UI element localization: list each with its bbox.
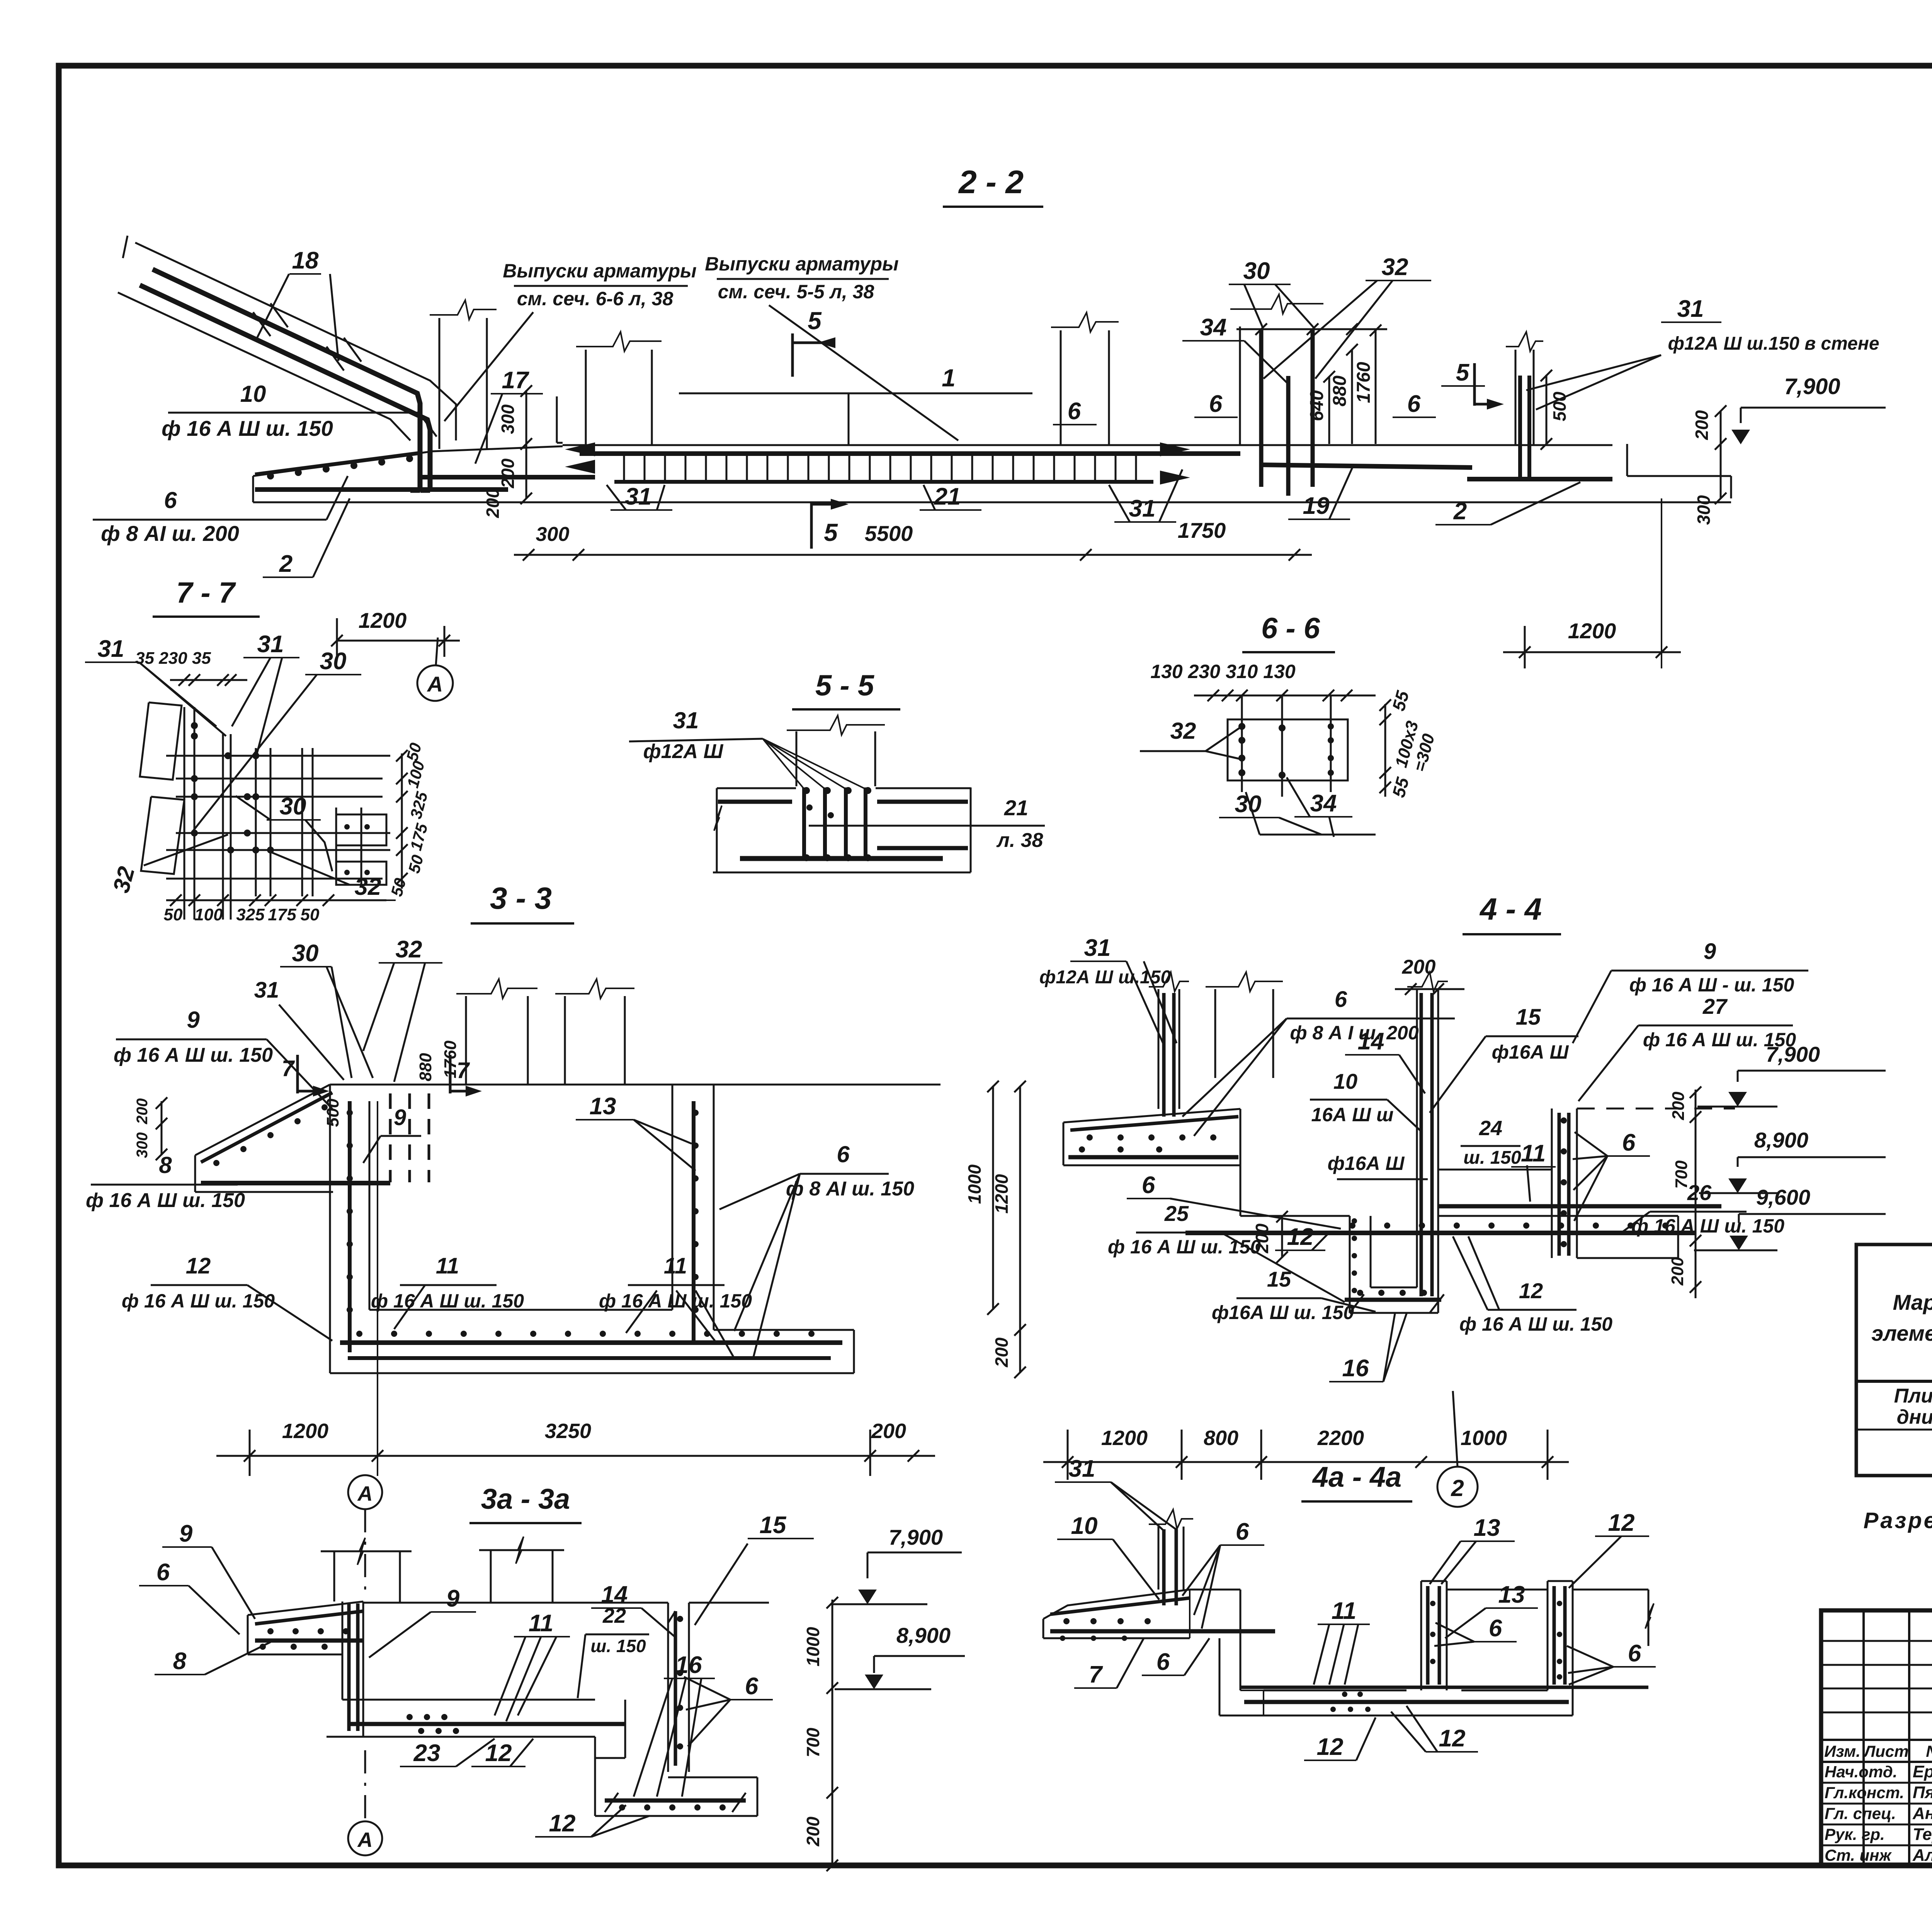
svg-text:5: 5	[808, 307, 822, 335]
svg-text:12: 12	[549, 1810, 576, 1837]
svg-text:6: 6	[1489, 1615, 1502, 1642]
dim 500 right	[1546, 375, 1548, 444]
6-6 dims right	[1384, 704, 1386, 797]
svg-text:8: 8	[173, 1648, 187, 1675]
svg-text:32: 32	[1382, 254, 1408, 281]
svg-text:7: 7	[282, 1056, 295, 1081]
svg-text:31: 31	[1084, 935, 1111, 961]
svg-text:2: 2	[1453, 498, 1467, 525]
wall stub 1	[439, 318, 440, 449]
svg-text:10: 10	[1071, 1513, 1098, 1539]
svg-text:4 - 4: 4 - 4	[1479, 892, 1542, 926]
svg-text:11: 11	[436, 1253, 459, 1279]
svg-text:Нач.отд.: Нач.отд.	[1825, 1763, 1897, 1781]
dowel bars 30 32	[1259, 329, 1264, 487]
7-7 left parallelograms 32	[140, 702, 182, 780]
svg-text:элемента: элемента	[1871, 1321, 1932, 1345]
svg-text:2: 2	[1451, 1475, 1464, 1501]
svg-text:30: 30	[292, 940, 319, 967]
svg-text:21: 21	[934, 483, 961, 510]
svg-text:1750: 1750	[1178, 518, 1226, 542]
svg-text:12: 12	[1317, 1734, 1344, 1760]
svg-text:7,900: 7,900	[1784, 374, 1840, 399]
svg-text:9: 9	[187, 1007, 200, 1033]
svg-text:31: 31	[1069, 1455, 1095, 1482]
svg-text:300: 300	[1694, 495, 1714, 525]
svg-text:200: 200	[803, 1816, 823, 1846]
7-7 dims right	[401, 753, 403, 889]
svg-text:6: 6	[837, 1141, 850, 1167]
table vyborka grid	[1856, 1245, 1932, 1476]
svg-text:6: 6	[1142, 1172, 1155, 1199]
svg-text:9: 9	[394, 1105, 406, 1130]
5-5 vertical bars	[802, 787, 806, 861]
4a-4a footing bars	[1050, 1598, 1190, 1614]
svg-text:200: 200	[871, 1420, 906, 1443]
svg-text:ф 8 АI ш. 150: ф 8 АI ш. 150	[786, 1178, 914, 1200]
svg-text:А: А	[357, 1828, 373, 1851]
svg-text:ф16А Ш: ф16А Ш	[1492, 1041, 1569, 1063]
7-7 grid verticals	[184, 707, 185, 920]
svg-text:ф 16 А Ш ш. 150: ф 16 А Ш ш. 150	[371, 1290, 524, 1312]
svg-text:Ст. инж: Ст. инж	[1825, 1846, 1892, 1864]
3a-3a break marks top	[321, 1551, 412, 1552]
3-3 cut 7 marks	[296, 1055, 299, 1093]
svg-text:13: 13	[1474, 1515, 1500, 1541]
svg-text:700: 700	[803, 1727, 823, 1757]
svg-text:А: А	[427, 672, 443, 696]
ladder bar 1	[614, 452, 1153, 456]
svg-text:6: 6	[1068, 398, 1081, 425]
svg-text:6: 6	[1622, 1129, 1636, 1156]
chute splice ticks	[253, 312, 270, 336]
3-3 outline	[330, 1084, 940, 1086]
svg-text:18: 18	[292, 247, 319, 274]
svg-text:16: 16	[1342, 1355, 1369, 1382]
svg-text:32: 32	[1170, 718, 1196, 744]
svg-text:6: 6	[164, 487, 177, 513]
svg-text:Изм.: Изм.	[1824, 1742, 1861, 1760]
svg-text:175: 175	[268, 905, 296, 924]
svg-text:27: 27	[1702, 994, 1728, 1018]
dim 640 880 1760	[1328, 377, 1330, 444]
svg-text:200: 200	[1669, 1092, 1688, 1120]
svg-text:11: 11	[664, 1253, 687, 1279]
svg-text:17: 17	[502, 367, 529, 394]
svg-text:7 - 7: 7 - 7	[176, 576, 236, 609]
4-4 mid bar	[1438, 1204, 1721, 1209]
svg-text:31: 31	[254, 978, 279, 1003]
3a-3a outline	[248, 1602, 363, 1615]
svg-text:Терновая: Терновая	[1913, 1825, 1932, 1844]
svg-text:200: 200	[1252, 1223, 1272, 1253]
svg-text:Рук. гр.: Рук. гр.	[1825, 1825, 1885, 1843]
svg-text:19: 19	[1303, 493, 1330, 519]
cut mark 5 top	[791, 333, 794, 377]
4-4 wall bars mid	[1420, 993, 1423, 1296]
svg-text:ф 16 А Ш - ш. 150: ф 16 А Ш - ш. 150	[1629, 974, 1794, 996]
svg-text:31: 31	[98, 636, 124, 662]
svg-text:Ерзин: Ерзин	[1913, 1762, 1932, 1781]
wall 4 dowels 31	[1518, 376, 1522, 481]
svg-text:9: 9	[446, 1585, 460, 1612]
lap bar 19	[1261, 465, 1472, 468]
svg-text:4а - 4а: 4а - 4а	[1312, 1461, 1401, 1493]
4-4 footing bars	[1070, 1117, 1238, 1130]
wall stub around dowels	[1239, 326, 1241, 445]
4-4 wall dots left	[1352, 1218, 1357, 1224]
svg-text:1200: 1200	[359, 608, 407, 632]
svg-text:1000: 1000	[1461, 1426, 1507, 1450]
7-7 axis circle A	[417, 665, 453, 701]
svg-text:Александров: Александров	[1912, 1846, 1932, 1865]
svg-text:50: 50	[301, 905, 320, 924]
wall stub 2	[585, 350, 587, 445]
svg-text:2: 2	[279, 551, 293, 577]
4-4 long bottom bar	[1185, 1231, 1696, 1235]
svg-text:ф 16 А Ш ш. 150: ф 16 А Ш ш. 150	[162, 416, 333, 440]
3-3 footing bars	[201, 1093, 332, 1162]
4-4 dims right	[1695, 1090, 1697, 1298]
svg-text:700: 700	[1672, 1160, 1691, 1189]
svg-text:200: 200	[498, 458, 518, 488]
svg-text:25: 25	[1164, 1201, 1189, 1226]
svg-text:31: 31	[625, 483, 652, 510]
4a-4a wall bars right1	[1426, 1586, 1430, 1685]
svg-text:5: 5	[1456, 359, 1470, 386]
svg-text:ф12А Ш ш.150 в стене: ф12А Ш ш.150 в стене	[1668, 333, 1879, 354]
svg-text:11: 11	[529, 1610, 553, 1637]
svg-text:325: 325	[236, 905, 265, 924]
slab outline 2-2	[563, 444, 1612, 446]
svg-text:12: 12	[1519, 1279, 1543, 1303]
svg-text:Пямякин: Пямякин	[1913, 1783, 1932, 1802]
4-4 dim stub	[1214, 989, 1216, 1078]
svg-text:Плита: Плита	[1894, 1385, 1932, 1407]
3-3 top wall stubs	[465, 996, 467, 1085]
svg-text:N докум.: N докум.	[1926, 1742, 1932, 1760]
svg-text:11: 11	[1332, 1598, 1356, 1624]
3a-3a dims right	[832, 1600, 833, 1866]
6-6 dots	[1238, 723, 1245, 730]
svg-text:ф 16 А Ш ш. 150: ф 16 А Ш ш. 150	[114, 1044, 273, 1066]
svg-text:6: 6	[1407, 391, 1421, 417]
axis circle 2	[1437, 1467, 1478, 1507]
svg-text:ф 8 АI ш. 200: ф 8 АI ш. 200	[101, 521, 239, 546]
svg-text:Антонов: Антонов	[1912, 1804, 1932, 1823]
footing left 2-2	[252, 476, 254, 502]
svg-text:ш. 150: ш. 150	[590, 1636, 646, 1656]
svg-text:10: 10	[240, 381, 266, 407]
svg-text:200: 200	[1692, 410, 1712, 440]
svg-text:ф16А Ш ш. 150: ф16А Ш ш. 150	[1212, 1302, 1354, 1323]
svg-text:см. сеч. 5-5 л, 38: см. сеч. 5-5 л, 38	[718, 281, 874, 303]
svg-text:3 - 3: 3 - 3	[490, 881, 552, 915]
svg-text:35 230 35: 35 230 35	[135, 649, 211, 668]
dim 300 200 left	[526, 390, 527, 444]
svg-text:30: 30	[1243, 258, 1270, 284]
svg-text:7,900: 7,900	[889, 1525, 943, 1549]
svg-text:ф16А Ш: ф16А Ш	[1328, 1153, 1405, 1174]
svg-text:640: 640	[1307, 390, 1327, 421]
3-3 wall dots	[347, 1110, 353, 1116]
4-4 dims bottom	[1043, 1461, 1569, 1463]
5-5 wall break top	[796, 731, 798, 786]
svg-text:12: 12	[485, 1740, 512, 1766]
svg-text:ф12А Ш: ф12А Ш	[643, 740, 724, 763]
4-4 left wall stub	[1158, 989, 1160, 1109]
svg-text:130 230 310 130: 130 230 310 130	[1150, 661, 1296, 682]
svg-text:10: 10	[1333, 1069, 1357, 1093]
3a-3a wall bars	[347, 1603, 351, 1731]
svg-text:30: 30	[320, 648, 347, 675]
svg-text:1760: 1760	[1354, 362, 1374, 403]
svg-text:14: 14	[601, 1581, 628, 1608]
svg-text:16: 16	[675, 1652, 702, 1678]
svg-text:300: 300	[498, 404, 518, 434]
svg-text:15: 15	[760, 1512, 787, 1539]
svg-text:200: 200	[483, 488, 503, 518]
svg-text:500: 500	[1549, 391, 1570, 421]
svg-text:ф 16 А Ш ш. 150: ф 16 А Ш ш. 150	[599, 1290, 752, 1312]
svg-text:13: 13	[1498, 1581, 1525, 1608]
svg-text:24: 24	[1479, 1117, 1502, 1140]
5-5 slab bars	[718, 800, 792, 804]
svg-text:31: 31	[1129, 495, 1156, 522]
svg-text:31: 31	[673, 707, 699, 733]
svg-text:6: 6	[1209, 391, 1223, 417]
7-7 small col right	[335, 808, 337, 885]
3a-3a right wall bars	[674, 1611, 677, 1766]
3a-3a footing bar	[255, 1611, 363, 1624]
svg-text:6: 6	[1236, 1518, 1249, 1545]
svg-text:2 - 2: 2 - 2	[958, 164, 1024, 200]
svg-text:6 - 6: 6 - 6	[1261, 612, 1320, 645]
svg-text:100: 100	[194, 905, 223, 924]
svg-text:8,900: 8,900	[896, 1623, 951, 1647]
svg-text:7: 7	[1089, 1661, 1103, 1688]
svg-text:11: 11	[1521, 1140, 1546, 1167]
svg-text:3а - 3а: 3а - 3а	[481, 1483, 570, 1515]
7-7 dots	[191, 722, 198, 729]
svg-text:21: 21	[1004, 796, 1028, 820]
svg-text:200: 200	[134, 1098, 151, 1125]
svg-text:32: 32	[396, 936, 422, 963]
4a-4a slab bars	[1244, 1700, 1569, 1704]
chute rebar thick bars	[153, 269, 420, 491]
svg-text:34: 34	[1200, 314, 1227, 341]
svg-text:500: 500	[323, 1098, 342, 1127]
svg-text:5500: 5500	[865, 521, 913, 546]
svg-text:12: 12	[186, 1253, 211, 1279]
4-4 trench bars	[1345, 1298, 1441, 1302]
svg-text:ф12А Ш ш.150: ф12А Ш ш.150	[1039, 967, 1171, 988]
svg-text:2200: 2200	[1317, 1426, 1364, 1450]
svg-text:6: 6	[745, 1673, 759, 1700]
wall stub 3	[1060, 330, 1062, 445]
svg-text:А: А	[357, 1482, 373, 1505]
svg-text:6: 6	[1156, 1649, 1170, 1675]
svg-text:13: 13	[590, 1093, 616, 1120]
dim 200 300 right	[1720, 411, 1722, 498]
svg-text:15: 15	[1516, 1005, 1541, 1030]
svg-text:31: 31	[1677, 296, 1704, 322]
svg-text:12: 12	[1608, 1510, 1635, 1536]
svg-text:15: 15	[1267, 1267, 1291, 1291]
svg-text:5 - 5: 5 - 5	[815, 669, 875, 702]
4a-4a outline	[1043, 1590, 1190, 1619]
chute outline 2-2	[135, 243, 456, 440]
svg-text:7,900: 7,900	[1766, 1042, 1820, 1066]
3-3 dims right	[992, 1086, 994, 1310]
axis circle A bottom	[348, 1821, 382, 1855]
svg-text:8: 8	[159, 1152, 172, 1178]
svg-text:30: 30	[280, 793, 306, 820]
bottom right bar 2	[1467, 477, 1612, 481]
3a-3a trench bars	[605, 1799, 746, 1803]
svg-text:1000: 1000	[803, 1627, 823, 1666]
title block	[1821, 1610, 1932, 1866]
svg-text:300: 300	[536, 523, 570, 546]
svg-text:200: 200	[1402, 956, 1436, 978]
svg-text:30: 30	[1235, 791, 1262, 818]
svg-text:ф 16 А Ш ш. 150: ф 16 А Ш ш. 150	[1108, 1236, 1261, 1258]
4a-4a right break	[1648, 1590, 1650, 1646]
5-5 break marks	[714, 806, 722, 831]
7-7 dims bottom	[166, 899, 386, 901]
svg-text:34: 34	[1310, 790, 1337, 817]
svg-text:32: 32	[355, 874, 381, 900]
svg-text:1: 1	[942, 364, 956, 392]
3a-3a slab bars	[348, 1722, 626, 1726]
svg-text:ф 8 А I ш. 200: ф 8 А I ш. 200	[1290, 1022, 1418, 1044]
svg-text:14: 14	[1358, 1028, 1384, 1055]
4a-4a left wall	[1158, 1527, 1160, 1590]
svg-text:Лист: Лист	[1863, 1742, 1908, 1760]
svg-text:Марка: Марка	[1893, 1290, 1932, 1314]
svg-text:16А Ш ш: 16А Ш ш	[1311, 1104, 1394, 1126]
svg-text:ф 16 А Ш ш. 150: ф 16 А Ш ш. 150	[1459, 1313, 1612, 1335]
svg-text:Выпуски арматуры: Выпуски арматуры	[705, 253, 899, 275]
svg-text:1200: 1200	[992, 1174, 1012, 1214]
svg-text:800: 800	[1204, 1426, 1238, 1450]
4a-4a wall bars right2	[1553, 1586, 1556, 1685]
svg-text:Выпуски арматуры: Выпуски арматуры	[503, 260, 697, 282]
svg-text:3250: 3250	[545, 1420, 591, 1443]
svg-text:л. 38: л. 38	[996, 829, 1043, 852]
dims bottom 2-2	[514, 554, 1312, 556]
3-3 wall bars	[348, 1101, 352, 1352]
svg-text:8,900: 8,900	[1754, 1128, 1808, 1152]
wall stub 4	[1515, 350, 1517, 445]
svg-text:1200: 1200	[1101, 1426, 1148, 1450]
svg-text:200: 200	[992, 1337, 1012, 1367]
svg-text:12: 12	[1287, 1224, 1314, 1250]
svg-text:1200: 1200	[282, 1420, 328, 1443]
svg-text:6: 6	[156, 1559, 170, 1586]
cut mark 5 bottom	[810, 502, 813, 549]
slab top bar 2-2	[580, 451, 1240, 456]
svg-text:6: 6	[1628, 1640, 1641, 1667]
svg-text:днища: днища	[1897, 1406, 1932, 1428]
svg-text:300: 300	[134, 1132, 151, 1158]
5-5 slab outline	[717, 787, 796, 789]
3-3 bottom bars	[340, 1340, 842, 1345]
axis circle A top	[348, 1475, 382, 1509]
6-6 bar verticals	[1241, 695, 1243, 792]
svg-text:1760: 1760	[441, 1041, 460, 1078]
6-6 box	[1228, 719, 1348, 780]
svg-text:Разрезы замаркированы на: Разрезы замаркированы на листе 38	[1864, 1508, 1932, 1533]
svg-text:5: 5	[824, 519, 838, 546]
ladder end arrows	[565, 442, 595, 456]
svg-text:50: 50	[164, 905, 183, 924]
4-4 right wall bars	[1558, 1113, 1561, 1256]
3-3 dashed bars 9	[389, 1093, 392, 1182]
svg-text:ш. 150: ш. 150	[1463, 1148, 1521, 1168]
svg-text:31: 31	[257, 631, 284, 658]
svg-text:ф 16 А Ш ш. 150: ф 16 А Ш ш. 150	[86, 1189, 245, 1212]
svg-text:880: 880	[1330, 376, 1350, 406]
svg-text:9,600: 9,600	[1756, 1185, 1810, 1209]
svg-text:Гл.конст.: Гл.конст.	[1825, 1783, 1904, 1802]
3-3 dims bottom	[216, 1455, 935, 1457]
svg-text:200: 200	[1668, 1257, 1687, 1286]
svg-text:ф 16 А Ш ш. 150: ф 16 А Ш ш. 150	[1631, 1215, 1784, 1237]
svg-text:Гл. спец.: Гл. спец.	[1825, 1804, 1896, 1823]
svg-text:23: 23	[413, 1740, 440, 1766]
svg-text:1000: 1000	[964, 1164, 985, 1204]
svg-text:ф 16 А Ш ш. 150: ф 16 А Ш ш. 150	[122, 1290, 275, 1312]
svg-text:6: 6	[1335, 987, 1347, 1012]
svg-text:см. сеч. 6-6 л, 38: см. сеч. 6-6 л, 38	[517, 288, 673, 309]
svg-text:1200: 1200	[1568, 619, 1616, 643]
svg-text:12: 12	[1439, 1725, 1466, 1752]
svg-text:9: 9	[1704, 939, 1716, 964]
4-4 outline	[1063, 1109, 1240, 1122]
svg-text:9: 9	[179, 1520, 193, 1547]
7-7 grid horizontals	[166, 755, 390, 757]
svg-text:880: 880	[416, 1053, 435, 1081]
